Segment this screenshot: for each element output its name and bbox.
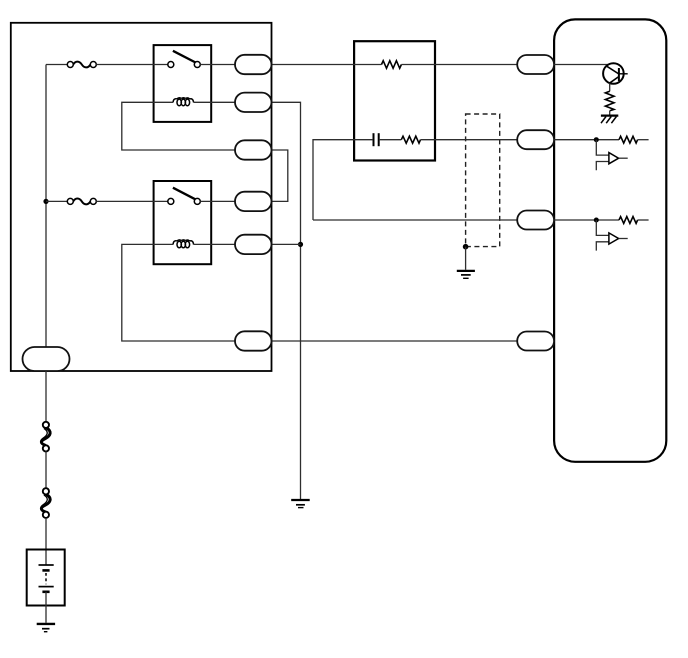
wire: battery to ground [45,592,47,623]
junction dot shield ground [463,244,469,250]
wire: pin6 to ECU pin D (y=341) [272,340,518,342]
resistor R4 [619,136,638,143]
wire: ECU pin C into ECU [554,219,619,221]
wire: buffer U1 lower input [596,162,609,171]
wire: corner to ECU pin C (y=220) [313,219,517,221]
wire: capacitor C1 to resistor R2 [380,139,402,141]
connector pin 6 (oval) [235,331,272,350]
wire: resistor R3 to chassis ground [609,111,611,115]
junction dot at (300.5,244.4) [298,242,303,247]
wire: resistor R2 to ECU pin B (y=139.7) [421,139,518,141]
wire: resistor R1 to pin A (y=64.5) [401,64,517,66]
wire: buffer U2 output [619,238,628,240]
wire: pin1 to resistor module (y=64.5) [272,64,382,66]
connector pin 5 (oval) [235,235,272,254]
fusible link FL1 [41,422,51,452]
ECU pin B (oval) [517,130,554,149]
relay K2 switch contacts [168,198,174,204]
ECU pin A (oval) [517,55,554,74]
wire: K2 coil left to x=121.8 down to y=341 [122,244,235,341]
transistor Q1 [603,63,628,84]
wire: buffer U2 upper input [596,220,609,235]
wire: shield ground drop [465,247,467,270]
wire: battery feed (below pin 7) [45,371,47,422]
wire: fuse F2 to relay K2 switch [96,200,168,202]
junction dot at (46,201.4) [43,199,48,204]
wire: FL2 to battery [45,518,47,565]
ECU pin C (oval) [517,211,554,230]
relay K1 switch contacts [168,62,174,68]
ground (shield) [457,271,475,278]
junction dot (sense 1) [594,137,599,142]
connector pin 3 (oval) [235,140,272,159]
chassis ground (Q1) [601,116,618,124]
fuse F2 [67,198,96,204]
battery BT1 plates [39,565,54,592]
shield box (dashed) [466,114,500,247]
connector pin 1 (oval) [235,55,272,74]
wire: buffer U1 upper input [596,140,609,155]
wire: feed to fuse F2 [46,200,67,202]
wire: resistor R4 stub [638,139,649,141]
connector pin 2 (oval) [235,93,272,112]
capacitor C1 [374,133,379,146]
wire: top feed y=64.5 to fuse F1 [46,64,67,66]
wire: K2 coil right to connector pin 5 [194,243,236,245]
wire: fuse F1 to relay K1 switch [96,64,168,66]
resistor R3 [605,91,614,111]
relay K2 coil [173,240,193,248]
resistor module enclosure [354,41,435,160]
relay K2 enclosure [154,181,212,264]
wire: ECU pin A to transistor Q1 [554,64,609,66]
ECU pin D (oval) [517,332,554,351]
wire: left feed vertical (x=46) [45,65,47,348]
wire: pin3 to pin4 external bracket [272,150,288,201]
buffer U2 [609,233,619,244]
wire: K2 switch to connector pin 4 [200,200,235,202]
wire: Q1 emitter to resistor R3 [609,83,611,91]
relay K2 switch blade [173,188,195,200]
wire: pin2 to ground drop (y=102.3) [272,102,301,499]
wire: capacitor branch corner (x=313) [313,140,372,220]
ground (left drop x=300.5) [291,500,310,508]
connector pin 7 (bottom oval) [23,347,70,371]
junction dot (sense 2) [594,218,599,223]
wire: buffer U1 output [619,157,628,159]
relay K1 coil [173,98,193,106]
wire: K1 coil right to connector pin 2 [194,101,236,103]
resistor R2 [401,136,420,143]
wire: ECU pin B into ECU [554,139,619,141]
battery BT1 enclosure [27,550,65,606]
wire: pin5 to junction (y=244.4) [272,243,301,245]
ECU enclosure (rounded) [554,19,666,461]
relay K1 enclosure [154,45,212,122]
fusible link FL2 [41,488,51,518]
connector pin 4 (oval) [235,192,272,211]
wire: between fusible links [45,452,47,489]
resistor R1 [382,61,402,69]
relay K1 switch blade [173,51,195,63]
wire: K1 switch to connector pin 1 [200,64,235,66]
resistor R5 [619,217,638,224]
ground (battery) [37,624,55,632]
buffer U1 [609,153,619,164]
fuse F1 [67,62,96,68]
relay/junction box enclosure [11,23,272,371]
wire: K1 coil left to x=121.8 down to y=150 [122,102,235,150]
wire: resistor R5 stub [638,219,649,221]
wire: buffer U2 lower input [596,242,609,251]
